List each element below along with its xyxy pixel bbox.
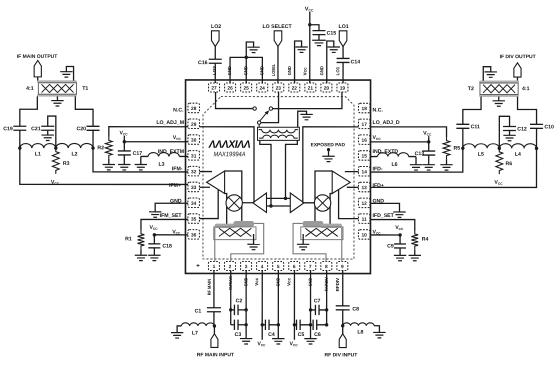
pin 8 box (bottom row) [321,262,332,271]
capacitor C7 [314,305,316,315]
switch arm with arrow [260,113,267,121]
junction [398,233,401,236]
wire VCC pin 10 [370,234,400,236]
pin 9 box (bottom row) [337,262,348,271]
wire to C9 [399,235,401,244]
stub switch pole to balun [258,124,260,127]
pin 5 box (bottom row) [273,261,284,270]
capacitor C19 [13,125,26,127]
svg-text:LO2: LO2 [211,24,221,30]
ground [394,254,406,256]
wire pin 7 down to ground [310,271,312,339]
wire LO1 pad to C14 [342,47,344,59]
svg-text:IFM_SET: IFM_SET [160,213,183,219]
svg-text:C11: C11 [471,124,480,130]
RF balun div ground [302,234,304,244]
wire GND pin 20 ground [327,41,334,83]
svg-text:C19: C19 [3,126,13,132]
switch pole contact [257,121,260,124]
pin 19 box (top row) [337,83,348,92]
pin 18 box (right column) [358,103,370,113]
capacitor C1 [207,307,221,309]
wire C20 down [92,130,94,148]
svg-text:C8: C8 [352,307,359,313]
capacitor C2 [233,305,235,315]
wire IFD_SET pin 11 riser [339,190,359,219]
wire LO1 pin 19 to switch throw [273,92,342,109]
junction [245,56,248,59]
wire C13 ground [428,155,430,165]
wire VCC to pin 21 [309,12,311,83]
wire pin 5 down to ground [277,271,279,339]
switch throw contact LO1 [269,107,272,110]
svg-text:17: 17 [362,122,368,128]
svg-text:28: 28 [191,106,197,112]
wire IF amp div lower to balun [330,194,332,225]
IC U1 MAX19994A body outline [185,80,370,274]
pin 26 box (top row) [225,83,236,92]
svg-text:C21: C21 [31,126,41,132]
svg-text:C13: C13 [415,151,425,157]
ground [423,164,435,166]
wire C19 down [19,130,21,148]
capacitor C18 [148,243,160,245]
svg-text:4:1: 4:1 [522,86,530,92]
svg-text:C12: C12 [517,127,527,133]
wire mixer div to LO amp [304,202,314,204]
svg-text:R6: R6 [506,161,513,167]
wire VCC to C13 [428,136,430,151]
LO2 input pad [211,31,219,47]
wire IFD- pin 14 [345,171,359,173]
svg-text:25: 25 [243,86,249,92]
capacitor C17 [118,150,131,152]
svg-text:C7: C7 [314,298,321,304]
svg-text:ΛΛΛXIΛΛ: ΛΛΛXIΛΛ [208,139,251,151]
LO1 input pad [339,31,347,47]
svg-text:L3: L3 [158,162,164,168]
wire pad to T2 [516,77,518,83]
RF balun div pads [303,221,323,226]
pin 4 box (bottom row) [257,261,268,270]
svg-text:R5: R5 [454,146,461,152]
wire pad to T1 [37,77,39,81]
wire C17 ground [123,155,125,165]
svg-text:GND: GND [308,278,313,287]
inductor L5 [463,144,500,149]
svg-text:5: 5 [277,264,280,270]
inductor L7 [181,323,214,326]
wire GND pin 25 [245,57,247,83]
inductor L2 [56,143,93,148]
ground [393,211,405,213]
wire IF amp div output to mixer [315,171,332,222]
capacitor C20 [87,125,100,127]
svg-text:29: 29 [191,122,197,128]
junction VCC pin30 [123,140,126,143]
L3 ground [140,156,142,164]
pin 14 box (right column) [358,166,370,176]
svg-text:3: 3 [245,264,248,270]
capacitor C15 [312,30,325,32]
wire C18 ground [153,248,155,255]
svg-text:LO2: LO2 [212,65,217,75]
svg-text:36: 36 [191,232,197,238]
svg-text:1: 1 [213,264,216,270]
LO SELECT input pad [274,31,282,47]
svg-text:C1: C1 [195,308,202,314]
junction [308,23,311,26]
ground [312,39,326,41]
svg-text:C10: C10 [544,124,554,130]
junction L1 L2 R3 [54,146,57,149]
wire IFM+ pin 33 [199,186,210,188]
wire pad [213,326,215,334]
wire VCC to C17 [123,136,125,151]
inductor L6 [378,153,409,157]
svg-text:4: 4 [261,264,264,270]
pin 24 box (top row) [257,83,268,92]
IF MAIN OUTPUT pad [34,60,41,76]
junction C1 L7 pad [213,324,216,327]
capacitor C4 [264,320,266,330]
wire LOSEL pin 23 to switch pole [261,92,279,123]
wire pin 2 down [230,270,232,324]
svg-text:MAX19994A: MAX19994A [214,151,247,158]
svg-text:C16: C16 [198,60,208,66]
ground [503,134,515,136]
wire L7 to ground [177,326,181,333]
transformer T1 4:1 [37,81,76,83]
svg-text:LO1: LO1 [339,24,349,30]
LO balun output flare right [285,140,297,198]
wire T1 to C20 [75,96,93,126]
svg-text:C2: C2 [236,298,243,304]
ground [247,46,259,48]
IF amp main (triangle) [207,171,225,194]
pin 33 box (left column) [188,182,200,192]
wire ground to L3 [141,155,148,157]
L6 ground [415,157,417,165]
LO balun secondary winding [259,135,298,138]
pin 23 box (top row) [273,83,284,92]
svg-text:L2: L2 [71,151,77,157]
wire R5 ground [446,159,448,165]
svg-text:LO1: LO1 [335,66,340,75]
svg-text:C17: C17 [133,151,143,157]
junction C8 L8 pad [341,324,344,327]
wire mixer main to LO amp [242,202,252,204]
inductor L3 [148,153,179,157]
T1 secondary ground wire [66,66,73,80]
ground [149,211,161,213]
svg-text:GND: GND [319,66,324,75]
pin 25 box (top row) [241,83,252,92]
T2 center tap ground [498,97,500,101]
exposed pad dashed boundary [203,97,354,259]
svg-text:IND_EXTD: IND_EXTD [373,149,399,155]
pin 10 box (right column) [358,230,370,240]
ground [60,71,72,73]
wire to ground elbow [246,42,253,57]
ground [440,164,452,166]
wire C16 to pin 27 [214,63,216,83]
wire LO_ADJ_D pin 17 to LO amp right [303,127,359,203]
svg-text:15: 15 [362,154,368,160]
svg-text:LO_ADJ_M: LO_ADJ_M [156,120,184,126]
svg-text:LO SELECT: LO SELECT [263,24,293,30]
svg-text:R3: R3 [63,161,70,167]
IF DIV OUTPUT pad [514,63,521,77]
pin 2 box (bottom row) [225,261,236,270]
wire TAPDIV pin 8 [293,223,326,261]
wire ground to L6 [409,156,416,158]
svg-text:IFM+: IFM+ [169,183,181,189]
ground [304,338,316,340]
wire L6 to IND_EXTD pin 15 [370,156,378,158]
svg-text:C20: C20 [76,126,86,132]
T2 primary ground wire [483,67,491,81]
svg-text:C9: C9 [387,244,394,250]
svg-text:GND: GND [259,66,264,75]
svg-text:GND: GND [243,278,248,287]
ground [42,134,54,136]
junction [153,233,156,236]
ground [171,332,183,334]
svg-text:R1: R1 [125,236,132,242]
svg-text:7: 7 [309,264,312,270]
wire IFD+ pin 13 [347,186,359,188]
wire LO_ADJ_D pin 17 to R5 [370,127,447,137]
svg-text:L5: L5 [478,152,484,158]
svg-text:T2: T2 [468,86,474,92]
svg-text:Vcc: Vcc [286,277,291,286]
LO balun primary winding [259,130,299,133]
wire pin 3 down to ground [245,270,247,338]
wire VCC pin 36 [154,234,188,236]
wire GND pins 26 24 bracket [230,57,262,83]
wire C21 to ground [47,130,49,135]
svg-text:IFD-: IFD- [373,166,383,172]
ground [135,254,147,256]
RF balun div windings [305,228,337,236]
wire pin 8 down [326,271,328,325]
svg-text:L8: L8 [357,330,363,336]
svg-text:N.C.: N.C. [173,107,184,113]
T1 center tap ground [56,96,58,100]
junction C11 L5 [461,147,464,150]
capacitor C14 [337,57,350,59]
svg-text:RFDIV: RFDIV [335,278,340,292]
wire node to IFM- pin 32 [93,148,188,172]
wire C10 down [536,128,538,148]
pin 35 box (left column) [188,214,200,224]
capacitor C3 [233,320,235,330]
wire node to IFM+ pin 33 [20,148,188,184]
ground [485,71,497,73]
svg-text:C6: C6 [314,332,321,338]
pin 28 box (left column) [188,103,200,113]
svg-text:9: 9 [341,264,344,270]
wire pin 9 to C8 [342,271,344,306]
wire VCC node to pin 30 [124,141,188,143]
svg-text:C18: C18 [162,243,172,249]
svg-text:20: 20 [324,86,330,92]
IF amp div (triangle) [332,171,350,194]
capacitor C10 [530,123,543,125]
wire node to C12 [499,116,509,148]
capacitor C11 [456,123,469,125]
inductor L8 [343,323,374,326]
wire TAPMAIN pin 2 [231,223,264,261]
pin 34 box (left column) [188,198,200,208]
svg-text:L4: L4 [515,152,521,158]
wire node to C21 [48,116,56,148]
wire IFD_SET pin 11 to R4 [370,220,415,231]
pin 13 box (right column) [358,182,370,192]
wire GND pin 12 ground [370,203,400,212]
wire VCC node to pin 16 [370,141,429,143]
wire C14 to pin 19 [342,62,344,83]
pin 1 box (bottom row) [208,261,219,270]
wire LO SELECT to pin 23 [277,47,279,84]
LO differential rail lower [266,205,290,207]
capacitor C13 [422,150,435,152]
ground [272,338,284,340]
pin 21 box (top row) [305,83,316,92]
svg-text:IND_EXTM: IND_EXTM [158,149,184,155]
pin 36 box (left column) [188,230,200,240]
pin 15 box (right column) [358,151,370,161]
svg-text:RF MAIN INPUT: RF MAIN INPUT [197,352,234,358]
svg-text:22: 22 [292,86,298,92]
pin 27 box (top row) [209,83,220,92]
LO balun top-right ground wire [298,111,307,127]
svg-text:10: 10 [361,233,367,239]
svg-text:4:1: 4:1 [26,86,34,92]
svg-text:2: 2 [229,264,232,270]
pin 22 box (top row) [289,83,300,92]
resistor R6 [496,148,503,174]
wire IFM- pin 32 [200,171,213,173]
capacitor C16 [209,58,222,60]
svg-text:13: 13 [362,185,368,191]
wire GND pin 34 ground [155,203,188,212]
wire IFM_SET pin 35 to R1 [141,219,188,230]
svg-text:33: 33 [191,185,197,191]
svg-text:11: 11 [362,217,367,223]
pin 29 box (left column) [188,119,200,129]
junction L5 L4 R6 [498,147,501,150]
capacitor C21 [41,125,54,127]
svg-text:14: 14 [362,169,368,175]
svg-text:T1: T1 [82,86,88,92]
resistor R3 [52,148,59,174]
wire IF amp main output to mixer [225,171,242,222]
LO amp right (triangle) [290,193,304,213]
pin 7 box (bottom row) [305,262,316,271]
junction rail upper [284,197,287,200]
RF DIV INPUT pad [339,334,346,348]
svg-text:IFD+: IFD+ [372,183,383,189]
pin 6 box (bottom row) [289,262,300,271]
pin 20 box (top row) [321,83,332,92]
svg-text:TAPMAIN: TAPMAIN [228,276,233,290]
svg-text:LO_ADJ_D: LO_ADJ_D [373,120,400,126]
RF balun div box [301,227,343,240]
wire C9 ground [399,248,401,255]
wire RFDIV pin 9 riser [341,228,343,262]
svg-text:IF MAIN OUTPUT: IF MAIN OUTPUT [17,54,58,60]
ground [103,164,115,166]
capacitor C8 [336,305,350,307]
svg-text:R2: R2 [97,145,104,151]
wire C11 down [462,128,464,148]
inductor L1 [20,144,56,149]
wire IF amp main lower to balun [225,193,227,224]
capacitor C9 [394,243,406,245]
wire C1 down [213,312,215,326]
wire C12 ground [509,131,511,136]
wire C15 to ground [318,35,320,41]
RF balun main windings [219,228,251,236]
resistor R4 [411,230,418,249]
svg-text:Vcc: Vcc [254,277,259,286]
svg-text:19: 19 [340,86,346,92]
wire node to IFD- pin 14 [370,148,463,172]
svg-text:6: 6 [293,264,296,270]
pin 11 box (right column) [358,214,370,224]
ground [328,46,340,48]
wire to C18 [153,235,155,244]
ground [300,113,312,115]
ground [148,254,160,256]
wire T2 to C11 [463,97,481,125]
svg-text:16: 16 [362,138,368,144]
pin 12 box (right column) [358,198,370,208]
svg-text:24: 24 [260,86,266,92]
transformer T2 4:1 [479,81,518,83]
junction rail lower [269,204,272,207]
RF balun main box [214,227,256,240]
wire LO2 pad to C16 [214,46,216,59]
wire pin 1 to C1 [213,270,215,307]
svg-text:18: 18 [362,106,368,112]
svg-text:EXPOSED PAD: EXPOSED PAD [311,142,346,148]
resistor R2 [105,137,112,159]
wire T1 to C19 [20,96,38,126]
svg-text:+: + [196,263,200,269]
capacitor C12 [503,126,516,128]
svg-text:C3: C3 [235,332,242,338]
pin 30 box (left column) [188,135,200,145]
svg-text:TAPDIV: TAPDIV [324,277,329,291]
RF MAIN INPUT pad [211,334,218,348]
wire VCC to C15 [310,25,319,31]
junction C19 L1 [18,146,21,149]
ground [118,164,130,166]
pin 17 box (right column) [358,119,370,129]
junction L4 C10 [535,147,538,150]
ground [295,46,307,48]
wire LO_ADJ_M pin 29 to LO amp left [199,127,254,203]
junction VCC pin16 [427,140,430,143]
resistor R1 [138,230,145,249]
svg-text:Vcc: Vcc [303,67,308,76]
svg-text:21: 21 [308,86,314,92]
LO differential rail upper [266,197,290,199]
RF balun main ground [253,234,255,244]
